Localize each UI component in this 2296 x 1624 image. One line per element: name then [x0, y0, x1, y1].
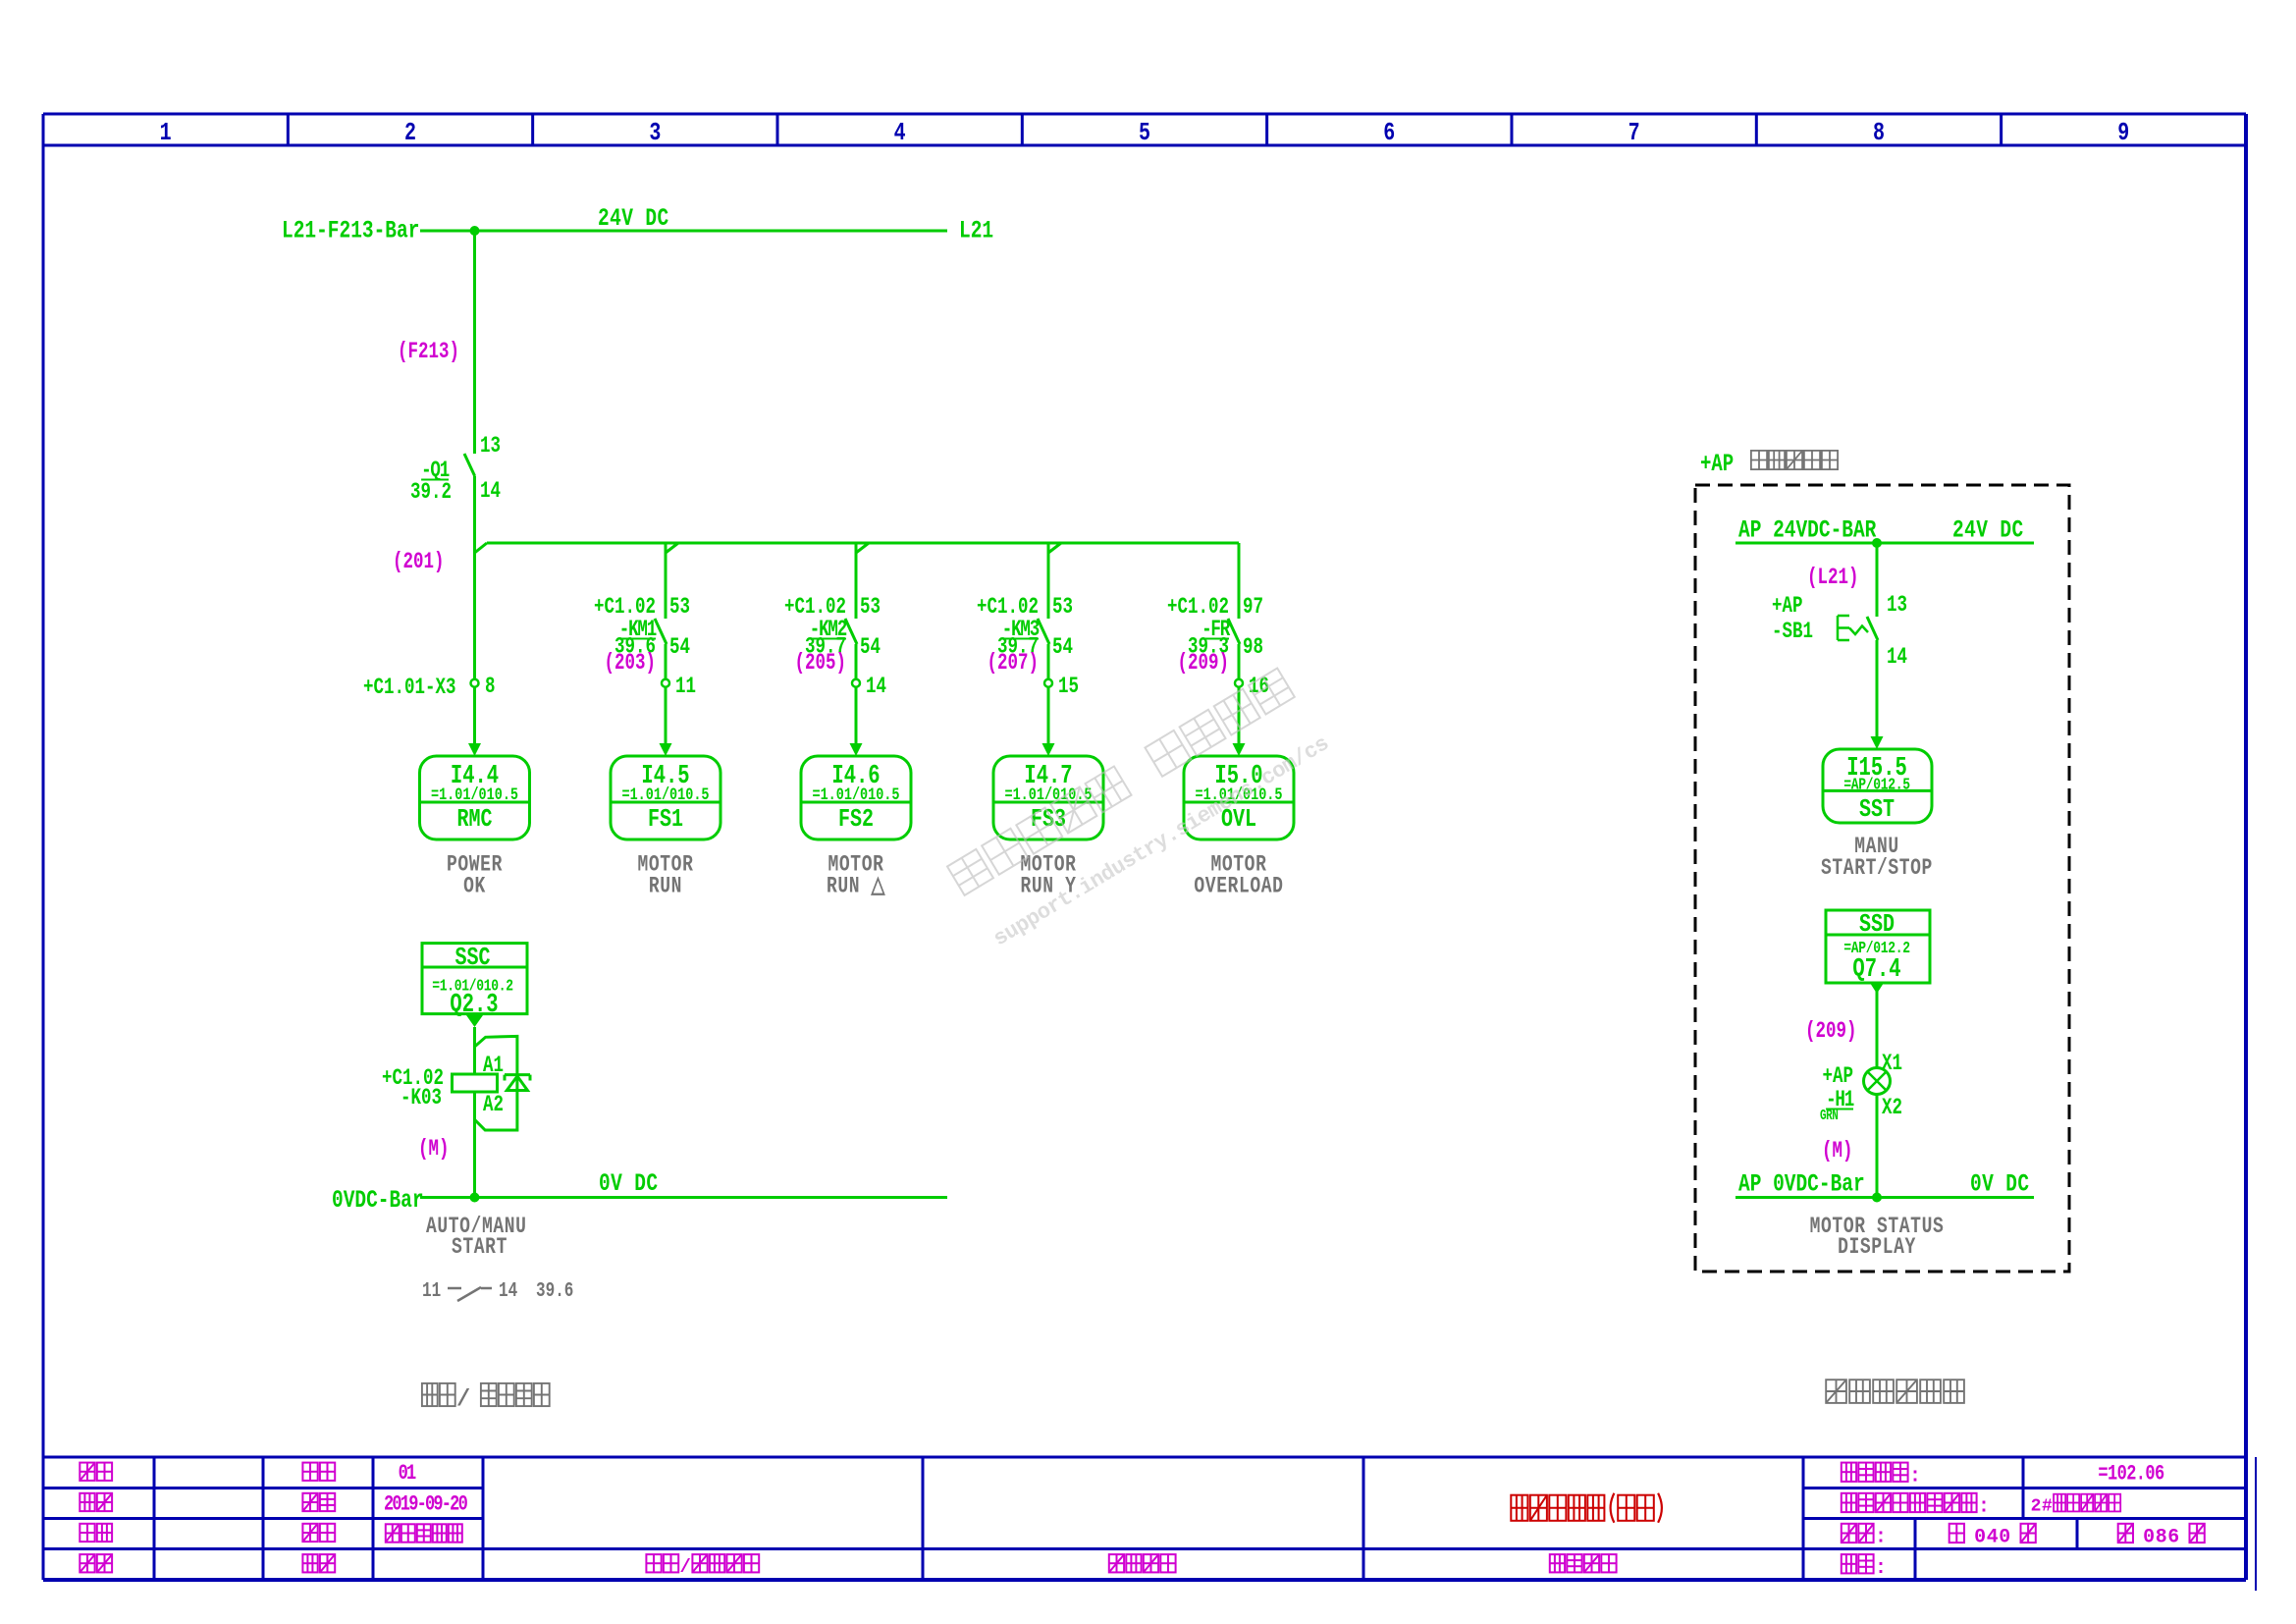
svg-text:53: 53 — [1052, 595, 1073, 621]
svg-text:X1: X1 — [1882, 1052, 1902, 1077]
svg-text:=1.01/010.5: =1.01/010.5 — [812, 785, 899, 804]
svg-text:6: 6 — [1383, 119, 1395, 147]
svg-text:+C1.01-X3: +C1.01-X3 — [363, 676, 455, 701]
svg-text:8: 8 — [485, 675, 495, 700]
svg-text:0: 0 — [1999, 1526, 2010, 1548]
svg-text:(209): (209) — [1805, 1019, 1856, 1045]
svg-text:54: 54 — [1052, 635, 1073, 661]
svg-text:2: 2 — [2031, 1497, 2042, 1517]
svg-text:+C1.02: +C1.02 — [977, 595, 1039, 621]
svg-text:=1.01/010.5: =1.01/010.5 — [621, 785, 709, 804]
svg-text:5: 5 — [1139, 119, 1150, 147]
svg-text:2: 2 — [404, 119, 416, 147]
svg-text:(M): (M) — [418, 1137, 449, 1163]
svg-text:0V DC: 0V DC — [599, 1169, 659, 1198]
svg-text:+C1.02: +C1.02 — [1167, 595, 1229, 621]
svg-text:=AP/012.5: =AP/012.5 — [1843, 775, 1910, 794]
svg-text:/: / — [680, 1556, 691, 1578]
svg-text:14: 14 — [480, 479, 501, 505]
svg-text:#: # — [2042, 1497, 2053, 1517]
svg-text:RUN: RUN — [649, 875, 682, 900]
svg-text:98: 98 — [1243, 635, 1263, 661]
svg-text:(205): (205) — [795, 651, 846, 677]
svg-text:54: 54 — [860, 635, 881, 661]
svg-text:0: 0 — [2143, 1526, 2155, 1548]
svg-text:01: 01 — [399, 1461, 416, 1486]
svg-text:13: 13 — [1887, 593, 1907, 619]
svg-text:24V DC: 24V DC — [598, 204, 669, 233]
svg-text:A1: A1 — [483, 1054, 504, 1079]
svg-text:8: 8 — [1873, 119, 1885, 147]
svg-text:9: 9 — [2117, 119, 2129, 147]
svg-text::: : — [1978, 1495, 1990, 1518]
svg-text:=102.06: =102.06 — [2098, 1462, 2163, 1487]
svg-text:4: 4 — [1987, 1526, 1999, 1548]
svg-text:RUN △: RUN △ — [827, 875, 885, 900]
svg-text:8: 8 — [2156, 1526, 2167, 1548]
svg-text:3: 3 — [649, 119, 661, 147]
svg-text:(M): (M) — [1822, 1139, 1852, 1164]
svg-text:14: 14 — [1887, 645, 1907, 671]
svg-text:L21: L21 — [959, 216, 993, 244]
svg-text:(201): (201) — [393, 550, 444, 575]
svg-text:RMC: RMC — [457, 805, 493, 834]
svg-text:53: 53 — [860, 595, 881, 621]
svg-text:X2: X2 — [1882, 1096, 1902, 1121]
svg-text:97: 97 — [1243, 595, 1263, 621]
svg-text:DISPLAY: DISPLAY — [1838, 1235, 1916, 1261]
svg-text:OK: OK — [463, 875, 486, 900]
svg-text:7: 7 — [1629, 119, 1640, 147]
svg-text:FS2: FS2 — [838, 805, 874, 834]
svg-text:GRN: GRN — [1820, 1108, 1838, 1124]
svg-text:54: 54 — [669, 635, 690, 661]
svg-text:AP 0VDC-Bar: AP 0VDC-Bar — [1738, 1169, 1865, 1198]
svg-text:+AP: +AP — [1700, 451, 1734, 478]
svg-text:0VDC-Bar: 0VDC-Bar — [332, 1186, 424, 1215]
svg-text:14: 14 — [499, 1279, 517, 1303]
svg-text:6: 6 — [2167, 1526, 2179, 1548]
svg-text:AP 24VDC-BAR: AP 24VDC-BAR — [1738, 515, 1877, 544]
svg-text:(L21): (L21) — [1807, 566, 1858, 591]
svg-text:-SB1: -SB1 — [1772, 620, 1813, 645]
svg-text:=1.01/010.5: =1.01/010.5 — [431, 785, 518, 804]
svg-text:+AP: +AP — [1772, 594, 1802, 620]
svg-text:15: 15 — [1058, 675, 1079, 700]
svg-text:FS1: FS1 — [648, 805, 683, 834]
svg-text:+C1.02: +C1.02 — [594, 595, 656, 621]
svg-text:11: 11 — [422, 1279, 441, 1303]
svg-text:A2: A2 — [483, 1093, 504, 1118]
svg-text:39.6: 39.6 — [536, 1279, 573, 1303]
svg-text:START: START — [452, 1235, 507, 1261]
svg-text:0V DC: 0V DC — [1970, 1169, 2030, 1198]
svg-text::: : — [1909, 1464, 1921, 1487]
svg-text::: : — [1875, 1556, 1887, 1579]
svg-text:+C1.02: +C1.02 — [784, 595, 846, 621]
svg-text:+AP: +AP — [1823, 1064, 1853, 1090]
svg-text:0: 0 — [1974, 1526, 1986, 1548]
svg-text:39.2: 39.2 — [410, 480, 452, 506]
svg-text::: : — [1875, 1526, 1887, 1548]
svg-text:53: 53 — [669, 595, 690, 621]
svg-text:SSD: SSD — [1859, 910, 1895, 939]
svg-text:-K03: -K03 — [400, 1086, 442, 1111]
svg-text:SSC: SSC — [455, 944, 491, 972]
svg-text:START/STOP: START/STOP — [1821, 856, 1933, 882]
svg-text:4: 4 — [894, 119, 906, 147]
svg-text:1: 1 — [160, 119, 172, 147]
svg-text:2019-09-20: 2019-09-20 — [384, 1492, 467, 1517]
svg-text:Q7.4: Q7.4 — [1852, 955, 1900, 985]
svg-text:(207): (207) — [988, 651, 1039, 677]
svg-text:SST: SST — [1859, 795, 1895, 824]
svg-text:13: 13 — [480, 434, 501, 460]
svg-text:14: 14 — [866, 675, 886, 700]
svg-text:OVERLOAD: OVERLOAD — [1194, 875, 1283, 900]
svg-text:/: / — [456, 1386, 470, 1413]
svg-text:24V DC: 24V DC — [1952, 515, 2024, 544]
svg-text:(F213): (F213) — [398, 340, 459, 365]
svg-text:11: 11 — [675, 675, 696, 700]
svg-text:L21-F213-Bar: L21-F213-Bar — [282, 216, 419, 244]
svg-text:(209): (209) — [1178, 651, 1229, 677]
svg-text:(203): (203) — [605, 651, 656, 677]
